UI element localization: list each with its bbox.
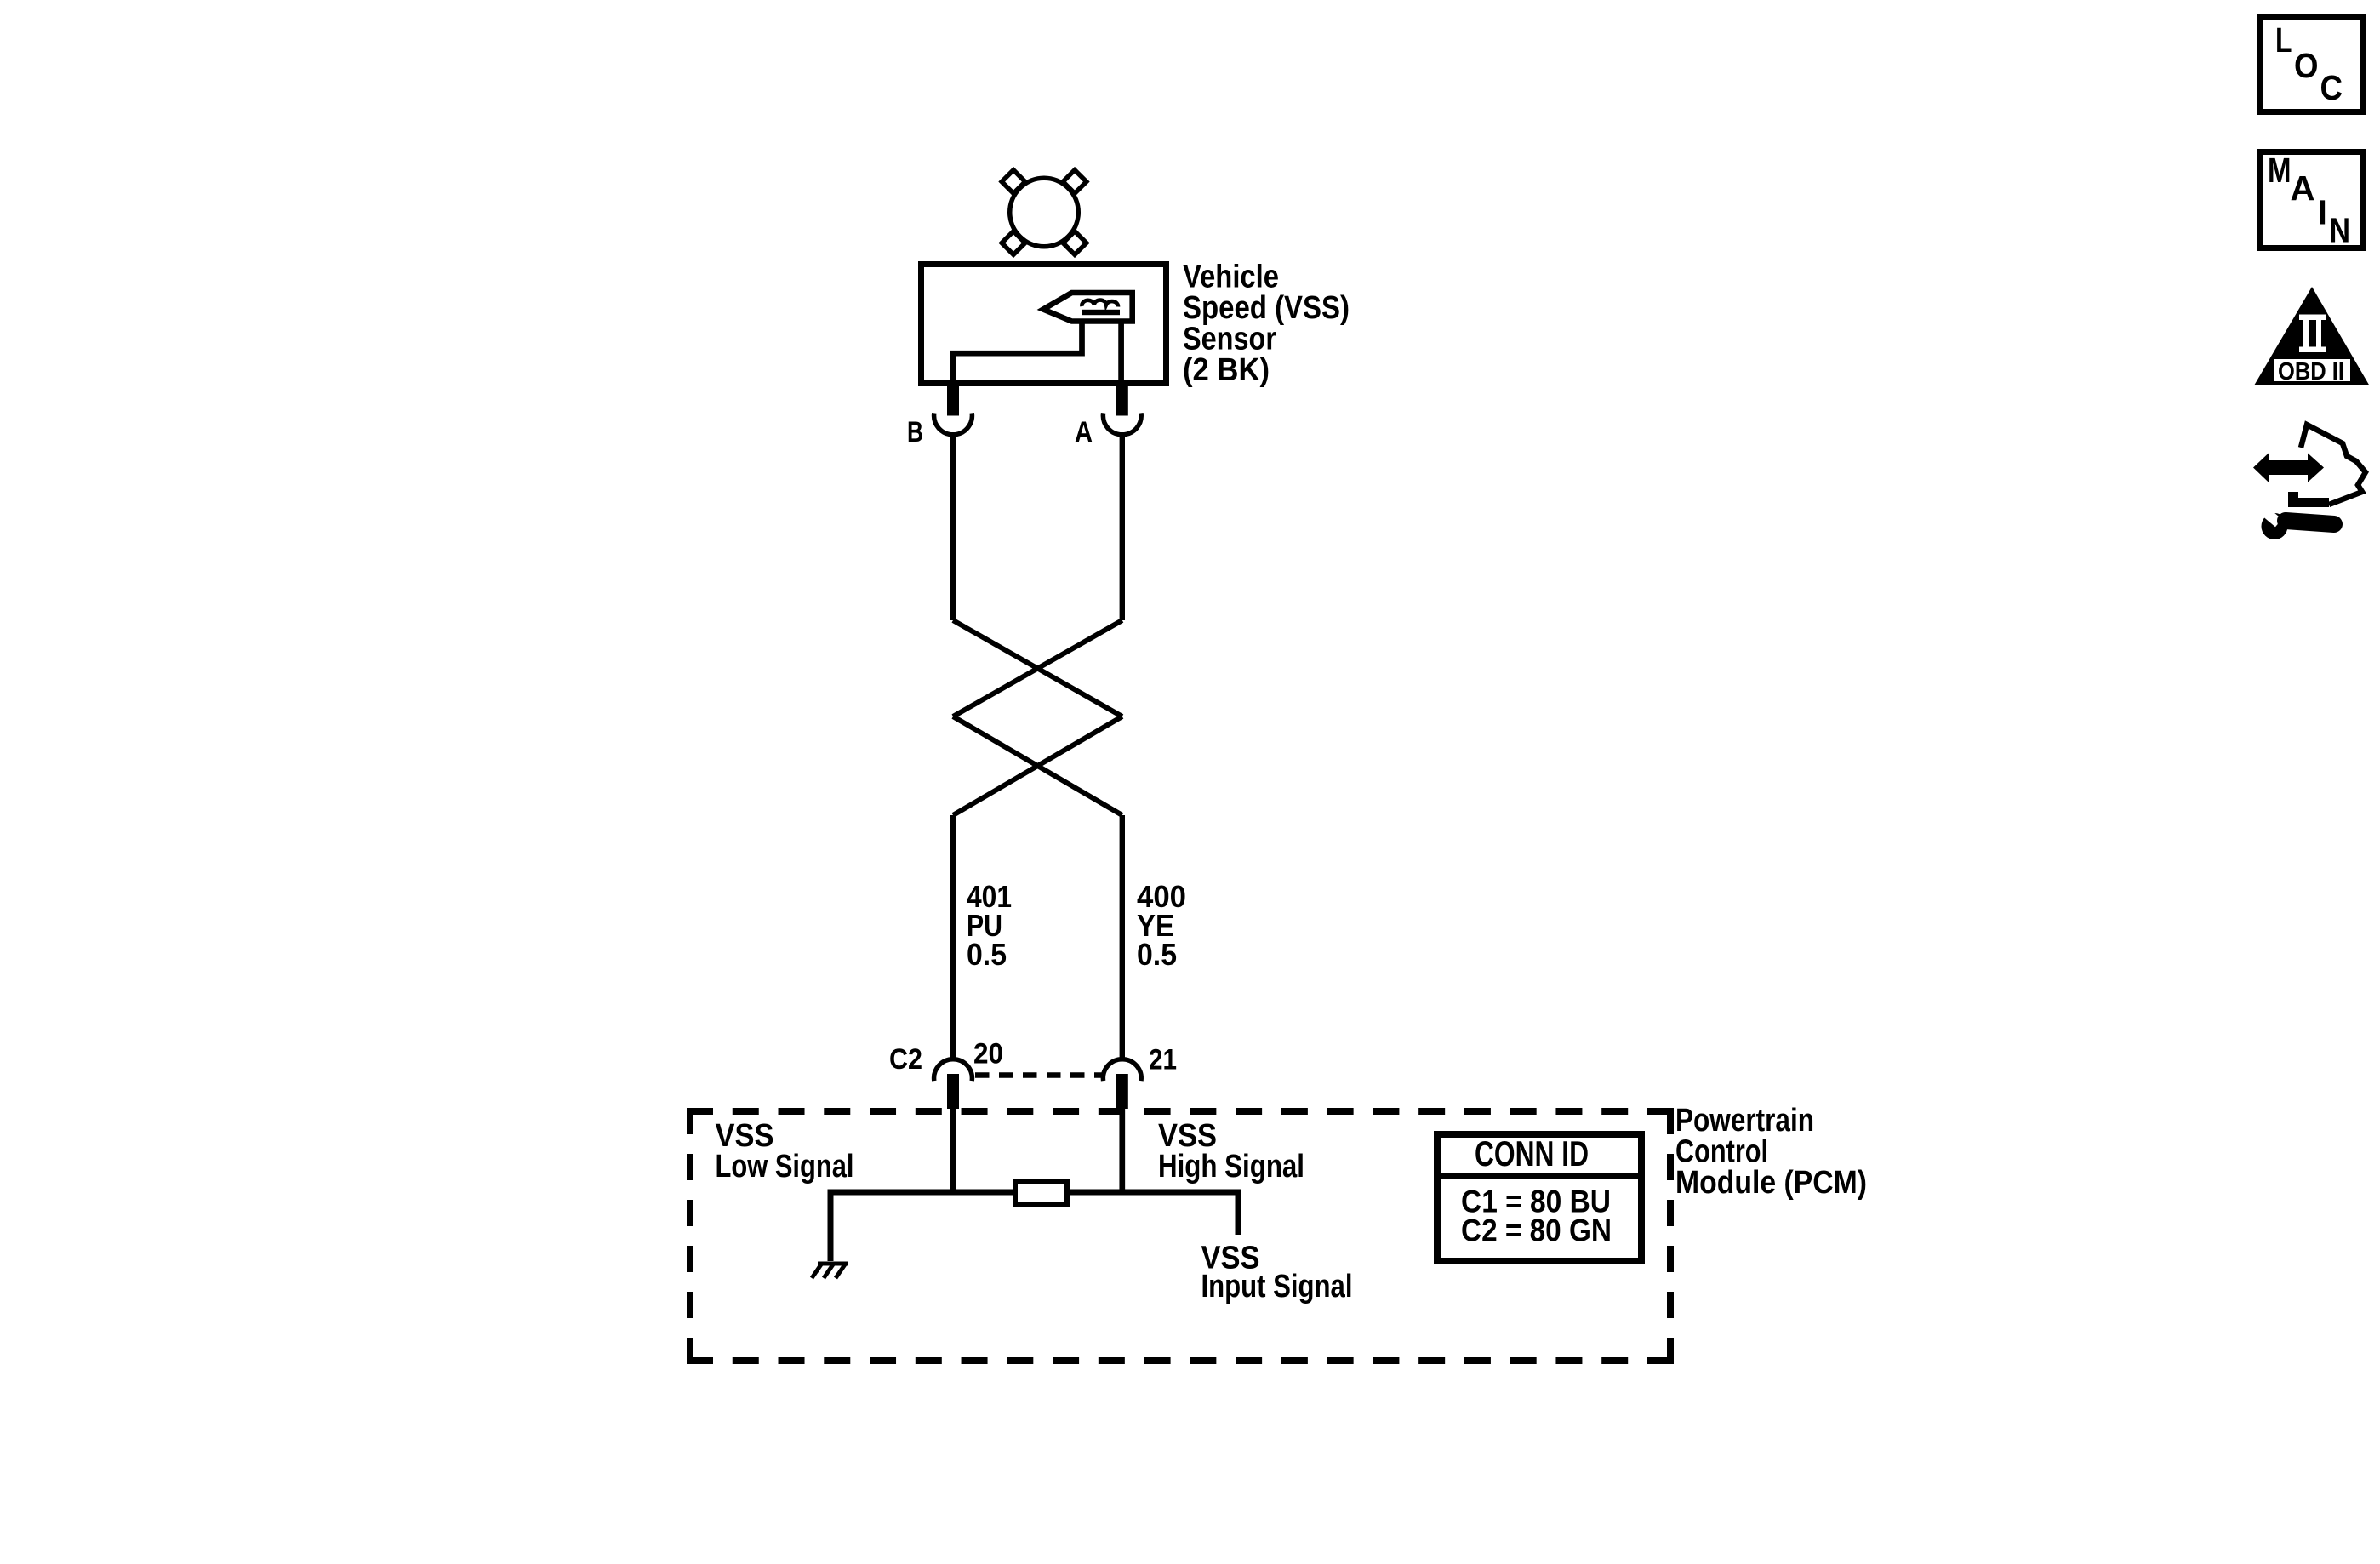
internal bus wire with input signal drop: [830, 1192, 1238, 1261]
coil squiggle: [1082, 300, 1118, 307]
svg-text:M: M: [2268, 151, 2292, 190]
PCM connector terminal 20: [934, 1059, 973, 1081]
svg-text:High Signal: High Signal: [1158, 1149, 1304, 1184]
svg-text:O: O: [2294, 46, 2319, 85]
svg-text:CONN ID: CONN ID: [1475, 1133, 1589, 1173]
PCM pin stub 20: [947, 1074, 959, 1109]
svg-text:I: I: [2318, 193, 2327, 232]
coil bar: [1082, 310, 1120, 315]
dashed connector link: [975, 1072, 1103, 1077]
svg-text:N: N: [2330, 211, 2351, 250]
svg-text:A: A: [1075, 416, 1093, 448]
MAIN icon box: [2261, 152, 2364, 248]
connector terminal A: [1103, 413, 1141, 434]
pin stub A: [1116, 384, 1128, 416]
sensor reluctor wheel symbol: [1002, 170, 1087, 255]
diagnostic double arrow icon: [2253, 454, 2324, 482]
CONN ID table: [1437, 1134, 1641, 1261]
wrench icon: [2262, 513, 2288, 539]
sensor internal pin wire to B: [953, 321, 1082, 383]
svg-text:Module (PCM): Module (PCM): [1675, 1165, 1867, 1201]
LOC icon box: [2261, 17, 2364, 112]
connector terminal B: [934, 413, 973, 434]
PCM dashed border: [687, 1108, 1674, 1364]
pin stub B: [947, 384, 959, 416]
svg-text:B: B: [907, 416, 923, 448]
sensor internal pin wire to A: [1118, 321, 1124, 383]
diagnostic outline shape: [2301, 425, 2366, 505]
svg-text:20: 20: [973, 1038, 1003, 1070]
PCM pin stub 21: [1116, 1074, 1128, 1109]
pickup coil arrow symbol: [1043, 293, 1133, 322]
wire 20 into PCM: [950, 1109, 956, 1192]
svg-text:C2 = 80 GN: C2 = 80 GN: [1461, 1213, 1612, 1248]
svg-text:OBD II: OBD II: [2278, 358, 2344, 385]
VSS sensor box: [922, 265, 1167, 384]
wire 21 into PCM: [1119, 1109, 1125, 1192]
svg-text:0.5: 0.5: [967, 937, 1007, 972]
svg-text:0.5: 0.5: [1137, 937, 1177, 972]
ground symbol: [812, 1264, 848, 1278]
svg-text:C2: C2: [889, 1043, 922, 1076]
wire 401 PU down: [950, 815, 956, 1058]
svg-text:C: C: [2320, 68, 2343, 107]
twisted pair crossover: [953, 620, 1122, 815]
svg-text:21: 21: [1149, 1044, 1177, 1076]
svg-text:Input Signal: Input Signal: [1201, 1269, 1353, 1304]
OBD II triangle icon: [2254, 287, 2370, 385]
svg-text:(2 BK): (2 BK): [1183, 352, 1270, 388]
svg-text:A: A: [2291, 168, 2315, 208]
wire 400 YE down: [1120, 815, 1125, 1058]
svg-text:Low Signal: Low Signal: [716, 1149, 854, 1184]
svg-text:L: L: [2275, 20, 2292, 60]
wire A down: [1120, 434, 1125, 621]
resistor: [1015, 1181, 1067, 1205]
wire B down: [950, 434, 956, 621]
PCM connector terminal 21: [1103, 1059, 1141, 1081]
